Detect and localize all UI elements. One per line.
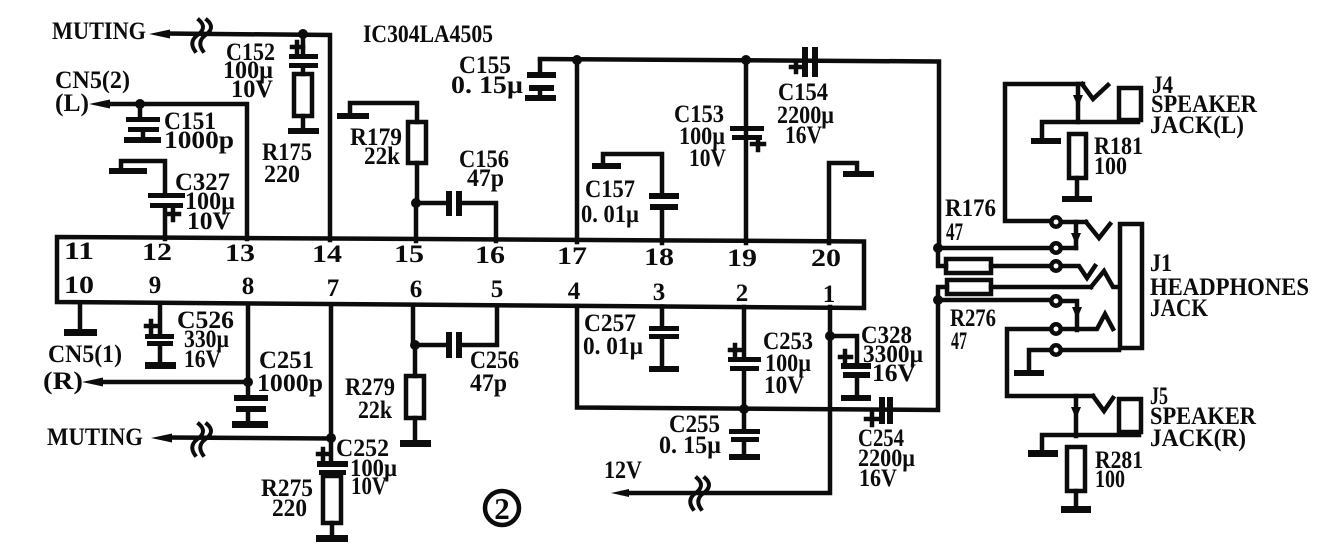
capacitor C152 xyxy=(289,34,318,74)
svg-text:R176: R176 xyxy=(945,195,996,222)
capacitor C257 with bar xyxy=(649,307,679,373)
value label C526 330u 16V xyxy=(177,307,234,373)
junction dot C151 tap xyxy=(135,99,145,109)
svg-text:1000p: 1000p xyxy=(164,127,234,154)
junction dot pin15/C156 xyxy=(411,198,421,208)
jack J1 body xyxy=(1120,224,1142,348)
jack J4 body xyxy=(1119,88,1141,120)
svg-text:0. 15µ: 0. 15µ xyxy=(659,432,721,459)
junction dot C252 tap xyxy=(326,433,336,443)
svg-text:18: 18 xyxy=(644,244,674,271)
resistor R275 xyxy=(316,476,348,542)
svg-text:J1: J1 xyxy=(1150,250,1172,277)
svg-text:16V: 16V xyxy=(859,465,897,492)
junction dot C152 tap xyxy=(298,29,308,39)
arrow into (R) xyxy=(82,378,103,387)
jack J4 tip contact V xyxy=(1082,84,1108,99)
capacitor C151 xyxy=(124,104,161,143)
svg-text:2: 2 xyxy=(494,491,510,526)
wire (R) to pin 8 xyxy=(99,304,248,382)
value label R279 22k xyxy=(345,374,395,424)
svg-text:12: 12 xyxy=(142,239,172,266)
svg-text:4: 4 xyxy=(568,278,581,305)
svg-text:16V: 16V xyxy=(184,346,221,373)
junction dot C328 tap xyxy=(825,331,835,341)
svg-text:14: 14 xyxy=(312,241,343,268)
jack J5 plug arrow xyxy=(1071,396,1081,436)
value label R175 220 xyxy=(262,139,312,188)
speaker jack J4 loop wire xyxy=(1005,84,1083,221)
svg-text:10V: 10V xyxy=(764,372,804,399)
ground R181 xyxy=(1062,196,1092,202)
capacitor C255 xyxy=(729,409,760,460)
node label CN5(1) (R) xyxy=(43,341,122,395)
capacitor C253 xyxy=(728,345,761,371)
svg-text:MUTING: MUTING xyxy=(52,18,146,45)
wire MUTING bottom to pin 7 xyxy=(168,305,331,439)
value label C153 100u 10V xyxy=(674,101,726,172)
svg-text:19: 19 xyxy=(727,245,757,272)
svg-text:6: 6 xyxy=(410,276,423,303)
svg-text:JACK(L): JACK(L) xyxy=(1150,112,1244,139)
capacitor C328 xyxy=(830,336,871,401)
ground R281 xyxy=(1061,506,1091,513)
value label R281 100 xyxy=(1095,447,1143,493)
capacitor C153 xyxy=(730,126,764,150)
value label C254 2200u 16V xyxy=(858,425,915,492)
wire pin 4 down and bottom rail xyxy=(577,300,938,410)
jack J5 tip contact V xyxy=(1093,396,1113,411)
svg-text:16V: 16V xyxy=(872,360,916,387)
svg-text:47: 47 xyxy=(946,219,963,246)
jack J1 tip V upper xyxy=(1086,222,1110,238)
junction dot pin17 xyxy=(572,55,582,65)
svg-text:0. 01µ: 0. 01µ xyxy=(581,201,639,228)
IC pin numbers top row 11-20 xyxy=(64,238,841,272)
headphones jack J1 contact circle 2 xyxy=(1051,243,1060,252)
junction dot R279/C256 xyxy=(410,340,420,350)
wire circle2 stub xyxy=(1062,246,1076,251)
value label R181 100 xyxy=(1094,133,1143,180)
speaker jack J5 loop wire xyxy=(1007,329,1093,396)
svg-text:10V: 10V xyxy=(231,76,273,103)
svg-text:IC304LA4505: IC304LA4505 xyxy=(363,21,493,48)
svg-text:220: 220 xyxy=(264,161,300,188)
svg-text:220: 220 xyxy=(272,495,307,522)
value label C257 0.01u xyxy=(583,310,643,360)
svg-text:20: 20 xyxy=(811,245,841,272)
junction dot pin19 xyxy=(741,55,751,65)
resistor R279 with bar xyxy=(400,305,431,447)
node label CN5(2) (L) xyxy=(55,67,130,117)
capacitor C254 (series) xyxy=(866,397,893,425)
wire pin 17 vertical xyxy=(575,60,580,242)
value label R276 47 xyxy=(950,305,996,355)
arrow into 12V xyxy=(611,489,629,497)
headphones jack J1 contact circle 6 xyxy=(1051,345,1060,354)
label J4 SPEAKER JACK(L) xyxy=(1150,72,1258,139)
svg-text:16V: 16V xyxy=(785,122,822,149)
svg-text:10V: 10V xyxy=(689,145,726,172)
label J1 HEADPHONES JACK xyxy=(1150,250,1309,322)
wire MUTING top to pin 14 xyxy=(166,34,330,241)
svg-text:47: 47 xyxy=(951,328,967,355)
headphones jack J1 contact circle 1 xyxy=(1051,217,1060,226)
capacitor C252 xyxy=(317,438,348,475)
value label C253 100u 10V xyxy=(763,328,813,399)
jack J5 stub ground xyxy=(1028,435,1139,457)
svg-text:10: 10 xyxy=(64,272,94,299)
resistor R181 xyxy=(1069,134,1086,196)
wire (L) to pin 13 xyxy=(106,104,247,239)
svg-text:7: 7 xyxy=(327,275,340,302)
value label C252 100u 10V xyxy=(336,435,397,500)
svg-text:8: 8 xyxy=(242,273,255,300)
cable break symbol (12V) xyxy=(690,478,709,509)
headphones jack J1 contact circle 4 xyxy=(1051,296,1060,305)
svg-text:JACK(R): JACK(R) xyxy=(1150,425,1246,452)
svg-text:JACK: JACK xyxy=(1150,295,1208,322)
value label R176 47 xyxy=(945,195,996,246)
jack J1 lower prong xyxy=(1062,314,1113,329)
capacitor C155 xyxy=(525,60,556,101)
wire circle4 down with arrow xyxy=(1062,301,1082,330)
jack J4 plug arrow xyxy=(1073,84,1083,122)
capacitor C251 xyxy=(232,382,268,428)
svg-text:17: 17 xyxy=(557,243,587,270)
wire circle6 to body xyxy=(1062,348,1119,353)
wire R176 node to jack ring contact xyxy=(938,246,1049,251)
value label C327 100u 10V xyxy=(175,169,235,235)
svg-text:47p: 47p xyxy=(467,165,504,192)
wire supply rail top xyxy=(540,59,939,248)
svg-text:CN5(1): CN5(1) xyxy=(48,341,122,368)
wire pin 15 vertical xyxy=(414,203,419,241)
stub at pin 20 xyxy=(829,163,874,243)
figure number circled 2 xyxy=(485,491,519,526)
junction dot R276 xyxy=(933,295,943,305)
svg-text:47p: 47p xyxy=(470,370,507,397)
IC pin numbers bottom row 10-1 xyxy=(64,272,835,308)
capacitor C156 xyxy=(416,191,496,241)
stub at pin 10 xyxy=(64,303,97,336)
value label R179 22k xyxy=(350,124,402,170)
value label C155 0.15u xyxy=(451,52,523,99)
svg-text:11: 11 xyxy=(64,238,94,265)
wire pin 1 vertical to 12V xyxy=(623,307,830,493)
svg-text:1000p: 1000p xyxy=(257,370,323,397)
wire R276 node to jack contact xyxy=(938,298,1049,303)
jack J1 ring prong xyxy=(1091,271,1117,287)
svg-text:3: 3 xyxy=(653,279,666,306)
jack J1 ring contact V xyxy=(1062,266,1095,278)
svg-text:5: 5 xyxy=(491,276,504,303)
resistor R176 (horizontal) xyxy=(938,248,1050,273)
junction dot C255 tap xyxy=(739,404,749,414)
svg-text:9: 9 xyxy=(149,272,162,299)
resistor R175 xyxy=(288,74,319,134)
svg-text:12V: 12V xyxy=(604,457,642,484)
value label C157 0.01u xyxy=(581,176,639,228)
capacitor C154 (series in rail) xyxy=(791,47,818,77)
wire circle6 to stub ground xyxy=(1014,350,1050,376)
svg-text:2: 2 xyxy=(736,280,749,307)
value label C328 3300u 16V xyxy=(861,322,923,387)
jack J4 stub ground xyxy=(1031,122,1138,144)
headphones jack J1 contact circle 3 xyxy=(1051,261,1060,270)
svg-text:0. 01µ: 0. 01µ xyxy=(583,333,643,360)
wire circle1 to tip V xyxy=(1062,220,1086,225)
junction dot R176 xyxy=(933,243,943,253)
svg-text:(R): (R) xyxy=(43,368,83,395)
value label C255 0.15u xyxy=(659,411,721,459)
svg-text:C157: C157 xyxy=(585,176,635,203)
capacitor C526 xyxy=(145,303,176,369)
cable break symbol (bottom MUTING) xyxy=(192,424,211,455)
svg-text:(L): (L) xyxy=(55,90,89,117)
svg-text:15: 15 xyxy=(394,241,424,268)
svg-text:10V: 10V xyxy=(351,473,387,500)
svg-text:22k: 22k xyxy=(358,397,392,424)
junction dot C251 tap xyxy=(243,377,253,387)
svg-text:1: 1 xyxy=(823,281,836,308)
value label C156 47p xyxy=(459,146,509,192)
arrow into (L) xyxy=(89,100,110,109)
resistor R179 with stub xyxy=(337,103,426,203)
resistor R276 (horizontal) xyxy=(938,280,1091,300)
jack J1 plug arrow upper xyxy=(1071,222,1081,248)
cable break symbol (top MUTING) xyxy=(192,20,211,51)
arrow into MUTING bottom xyxy=(151,434,172,443)
svg-text:22k: 22k xyxy=(364,143,400,170)
resistor R281 xyxy=(1067,447,1085,506)
svg-text:100: 100 xyxy=(1095,466,1125,493)
wire pin 2 vertical xyxy=(742,307,747,409)
wire pin 19 vertical xyxy=(744,61,749,243)
capacitor C256 xyxy=(415,306,497,358)
value label C154 2200u 16V xyxy=(777,79,834,149)
value label R275 220 xyxy=(261,475,313,522)
svg-text:13: 13 xyxy=(225,240,255,267)
IC U1 IC304 LA4505 body xyxy=(57,237,864,308)
capacitor C327 with stub xyxy=(109,161,185,239)
label J5 SPEAKER JACK(R) xyxy=(1150,383,1257,452)
value label C152 100u 10V xyxy=(223,39,275,103)
svg-text:100: 100 xyxy=(1094,153,1127,180)
svg-text:10V: 10V xyxy=(187,208,231,235)
headphones jack J1 contact circle 5 xyxy=(1051,324,1060,333)
svg-text:MUTING: MUTING xyxy=(47,424,143,451)
svg-text:0. 15µ: 0. 15µ xyxy=(451,72,523,99)
svg-text:16: 16 xyxy=(475,242,505,269)
value label C151 1000p xyxy=(164,108,234,154)
value label C256 47p xyxy=(470,347,519,397)
value label C251 1000p xyxy=(257,347,323,397)
jack J5 body xyxy=(1119,399,1141,432)
arrow into MUTING top xyxy=(149,30,170,39)
capacitor C157 with stub xyxy=(592,154,679,243)
